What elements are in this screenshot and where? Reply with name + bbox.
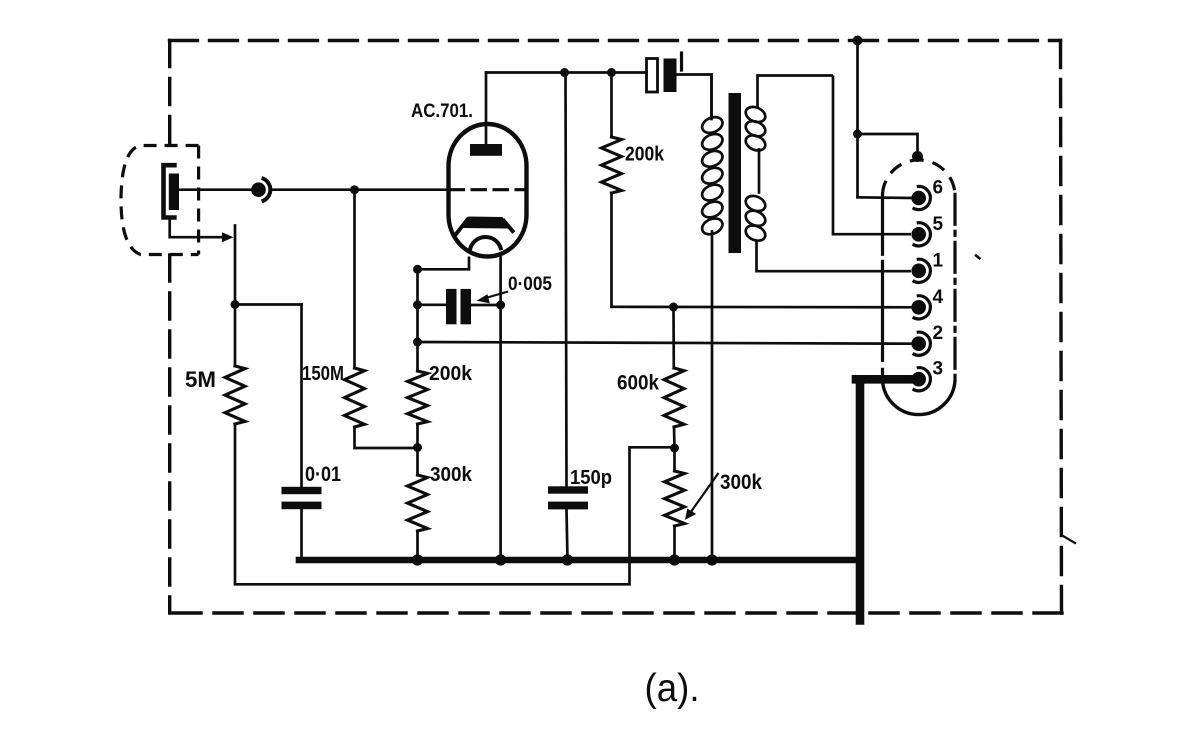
stray mark 1 [976, 256, 980, 259]
capacitor 0.005 right plate [461, 289, 472, 324]
wire C2 left lead [418, 303, 447, 306]
bus node 300k [412, 554, 423, 565]
tube cathode-left lead [418, 257, 470, 270]
enclosure dashed border bottom [170, 611, 1062, 614]
socket outline bottom arc [883, 380, 956, 414]
label 1 [680, 53, 683, 70]
enclosure dashed border top [170, 39, 1061, 42]
svg-text:2: 2 [933, 323, 944, 344]
wire 150p to bus [567, 509, 568, 560]
anode top wire [486, 71, 647, 74]
wire 300kvar to bus [673, 526, 676, 560]
wire 200k top lead [610, 73, 613, 138]
socket pin 1 [911, 264, 926, 279]
wire junction2 [673, 448, 676, 471]
tube cathode dome [470, 237, 501, 251]
svg-text:(a).: (a). [645, 667, 700, 710]
wire pin2 long [418, 342, 912, 344]
resistor 150M [345, 368, 365, 427]
wire tap to C1 column [235, 303, 302, 306]
capacitor C3 right plate [664, 59, 677, 93]
svg-text:150M: 150M [302, 362, 344, 385]
wire B+ down [856, 41, 859, 198]
transformer core [729, 93, 742, 253]
ground bus [299, 557, 860, 564]
transformer secondary bottom winding [743, 193, 767, 214]
tube grid dashed line [450, 188, 525, 191]
socket pin 5 [911, 227, 926, 242]
transformer secondary top winding [743, 104, 767, 125]
wire junction [416, 424, 419, 475]
node 150p top [560, 68, 569, 77]
transformer primary lead bottom [711, 232, 714, 561]
node B+ branch [853, 130, 862, 139]
wire connector to grid node [271, 188, 450, 191]
resistor 300k grid [408, 475, 428, 531]
thick wire pin3 [856, 375, 910, 384]
capacitor C3 left plate [647, 59, 658, 93]
microphone dashed outline [121, 146, 199, 255]
svg-text:4: 4 [933, 287, 944, 308]
svg-text:0·005: 0·005 [508, 274, 552, 295]
microphone element bracket [164, 165, 177, 217]
socket pin 6 [911, 191, 926, 206]
bus node 150p [562, 554, 573, 565]
stray mark 2 [1063, 536, 1075, 543]
node border B+ [853, 36, 863, 46]
enclosure dashed border left lower [168, 255, 171, 613]
node pin2 tap [413, 338, 422, 347]
wire C3 to primary [677, 75, 712, 118]
wire down to C1 [300, 305, 303, 488]
mic case arrow [170, 219, 226, 237]
svg-text:1: 1 [933, 250, 944, 271]
resistor 300k variable [665, 471, 685, 526]
svg-text:3: 3 [933, 359, 944, 380]
wire 600k bottom [673, 427, 676, 448]
socket pin 2 [911, 336, 926, 351]
transformer secondary bottom lead [757, 241, 912, 272]
tube AC.701 envelope [449, 124, 527, 257]
wire 150p column [566, 73, 567, 487]
svg-text:AC.701.: AC.701. [411, 100, 473, 122]
socket pin 3 [911, 372, 926, 387]
wire pin5 feed [833, 76, 911, 235]
tube filament tent [455, 220, 468, 237]
resistor 5M [225, 366, 245, 424]
connector J1 arc [262, 178, 271, 201]
resistor 200k grid [408, 371, 428, 424]
transformer secondary center segment [758, 150, 761, 193]
svg-text:5M: 5M [185, 367, 216, 392]
svg-text:600k: 600k [617, 372, 659, 395]
tube anode plate [470, 144, 502, 156]
bus node 300kvar [669, 554, 680, 565]
wire 200k bottom [610, 193, 613, 307]
svg-text:200k: 200k [429, 362, 473, 385]
svg-text:300k: 300k [430, 463, 473, 486]
node C2 left [413, 300, 422, 309]
socket pin 4 [911, 300, 926, 315]
node socket shell [912, 151, 923, 162]
connector J1 circle [251, 182, 266, 197]
tube cathode-right lead [499, 258, 502, 561]
wire 5M bottom to corner [235, 424, 674, 584]
enclosure dashed border left upper [168, 41, 171, 146]
node cathode-left [413, 265, 422, 274]
capacitor 150p top plate [548, 486, 588, 493]
svg-text:6: 6 [933, 178, 944, 199]
node C2 right [496, 301, 505, 310]
bus node primary [706, 554, 717, 565]
node grid junction [350, 185, 359, 194]
wire cathode-left column [416, 269, 419, 371]
thick wire vertical [856, 380, 865, 621]
wire B+ to socket top [858, 134, 918, 156]
wire 5M top stub [234, 226, 237, 367]
wire mic to connector [179, 188, 252, 191]
node 5M tap [231, 300, 240, 309]
socket outline left side [881, 194, 884, 380]
capacitor 0.01 top plate [282, 487, 322, 494]
resistor 200k anode [602, 137, 622, 193]
wire 300k to bus [416, 531, 419, 560]
wire pin6 feed [858, 196, 912, 199]
wire 150M bottom [355, 427, 418, 448]
wire grid to 150M [353, 190, 356, 368]
wire 600k top [672, 307, 675, 368]
bus node cathode [495, 554, 506, 565]
resistor 600k [664, 368, 684, 427]
socket outline top arc [883, 160, 956, 194]
capacitor 150p bottom plate [548, 502, 588, 510]
transformer primary winding [700, 114, 725, 136]
transformer primary lead top [710, 75, 713, 120]
node 600k top [669, 303, 678, 312]
wire pin4 long [612, 305, 912, 308]
node 200k top [607, 68, 616, 77]
capacitor 0.01 bottom plate [282, 502, 322, 510]
svg-text:300k: 300k [720, 471, 762, 494]
enclosure dashed border right [1061, 41, 1062, 614]
wire C2 right lead [471, 304, 501, 307]
transformer secondary top lead [758, 76, 834, 109]
tube anode lead [485, 73, 488, 147]
svg-text:0·01: 0·01 [305, 463, 341, 486]
svg-text:5: 5 [933, 214, 944, 235]
node 600k-300k junction [670, 444, 679, 453]
socket outline right side [953, 194, 956, 380]
wire C1 to bus [300, 509, 303, 560]
svg-text:200k: 200k [625, 144, 665, 166]
svg-text:150p: 150p [570, 466, 612, 489]
microphone element bar [169, 174, 179, 211]
node 200k-300k junction [413, 443, 422, 452]
capacitor 0.005 left plate [446, 289, 457, 324]
